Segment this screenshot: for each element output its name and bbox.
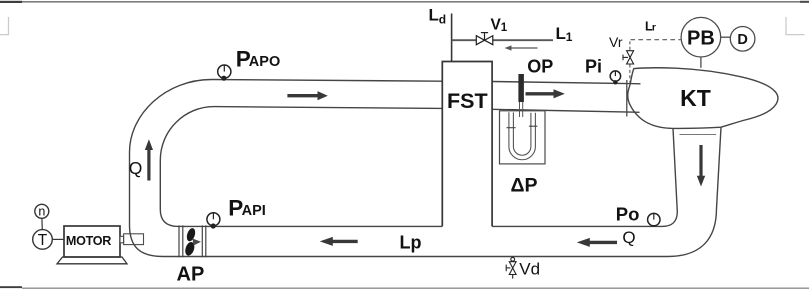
wire: Ld vent stem bbox=[451, 14, 453, 62]
valve V1 bbox=[476, 33, 493, 45]
svg-text:APO: APO bbox=[249, 54, 280, 70]
flow arrow in measuring pipe bbox=[526, 89, 565, 98]
svg-text:KT: KT bbox=[680, 85, 711, 111]
svg-text:ΔP: ΔP bbox=[511, 175, 538, 197]
wire: measuring pipe top edge bbox=[492, 82, 640, 84]
dashed line Lr to blower PB bbox=[631, 39, 681, 41]
svg-text:n: n bbox=[38, 205, 45, 219]
svg-text:d: d bbox=[439, 13, 446, 27]
FST settling chamber box bbox=[442, 62, 492, 227]
bold left arrow bottom middle bbox=[320, 237, 358, 246]
manometer dP box bbox=[500, 111, 546, 164]
svg-text:OP: OP bbox=[527, 57, 553, 77]
link PB to D bbox=[721, 36, 731, 38]
manometer U-tube inner bbox=[513, 112, 531, 155]
dashed line above Vr valve bbox=[629, 41, 631, 50]
torque meter T bbox=[33, 230, 53, 250]
svg-text:FST: FST bbox=[447, 89, 488, 113]
motor box bbox=[64, 226, 120, 257]
thin left arrow under V1 line bbox=[505, 45, 538, 50]
flow arrow top duct bbox=[287, 91, 327, 100]
svg-text:AP: AP bbox=[177, 264, 205, 286]
auxiliary blower PB bbox=[681, 17, 721, 57]
label P APO bbox=[236, 46, 280, 71]
svg-text:Pi: Pi bbox=[585, 57, 602, 77]
gauge P APO bbox=[218, 65, 231, 81]
valve Vd drain bbox=[506, 257, 516, 278]
wire: inner loop duct outline (top duct bottom edge, left inner bend, bottom pipe top edge left part) bbox=[160, 107, 442, 227]
bold left arrow bottom right bbox=[577, 238, 617, 247]
svg-text:PB: PB bbox=[687, 27, 715, 49]
fan AP flange lines bbox=[179, 225, 206, 257]
manometer liquid level ticks bbox=[507, 127, 516, 129]
svg-text:L: L bbox=[556, 24, 566, 43]
wire: bottom pipe top edge right part and right riser inner edge bbox=[492, 129, 677, 227]
gauge Pi bbox=[610, 71, 620, 85]
left frame corner mark bbox=[0, 17, 9, 35]
duct connection line under KT bbox=[680, 134, 717, 136]
link T to motor bbox=[52, 238, 64, 240]
motor shaft housing bbox=[124, 234, 144, 245]
test chamber KT blob bbox=[628, 68, 778, 129]
motor base pedestal bbox=[57, 257, 127, 264]
svg-text:Lp: Lp bbox=[400, 232, 422, 252]
tachometer n bbox=[35, 204, 49, 218]
manometer U-tube outer bbox=[509, 112, 536, 159]
svg-text:1: 1 bbox=[501, 22, 508, 34]
svg-text:MOTOR: MOTOR bbox=[66, 234, 111, 248]
svg-text:D: D bbox=[737, 32, 747, 48]
gauge Po bbox=[648, 213, 660, 225]
down arrow in outlet duct bbox=[697, 145, 705, 187]
label P API bbox=[228, 196, 265, 221]
pitot tube OP bbox=[518, 74, 524, 117]
svg-text:T: T bbox=[38, 232, 48, 249]
valve Vr bbox=[623, 51, 634, 64]
drive D bbox=[730, 27, 755, 52]
top border line bbox=[0, 1, 809, 3]
svg-text:API: API bbox=[242, 203, 266, 219]
stem PB to chamber KT bbox=[700, 57, 702, 68]
svg-text:Vd: Vd bbox=[519, 260, 540, 279]
wire: V1 branch line bbox=[452, 39, 553, 41]
flange at measuring pipe outlet bbox=[626, 80, 628, 117]
up arrow in left riser bbox=[145, 139, 153, 180]
right frame corner mark bbox=[786, 17, 805, 35]
wire: measuring pipe bottom edge bbox=[492, 109, 639, 112]
svg-text:Po: Po bbox=[616, 204, 640, 225]
dashed line below Vr valve to pipe tap bbox=[629, 65, 631, 83]
motor shaft coupling stub bbox=[120, 236, 124, 243]
bottom border line bbox=[0, 286, 809, 289]
wire: outer loop duct outline (top duct top edge, left bend, bottom pipe bottom edge, right riser outer) bbox=[130, 80, 722, 257]
svg-text:r: r bbox=[652, 22, 656, 34]
svg-text:L: L bbox=[429, 6, 439, 25]
svg-text:Q: Q bbox=[622, 228, 635, 247]
svg-text:Vr: Vr bbox=[609, 34, 623, 50]
link n to T bbox=[41, 218, 43, 229]
svg-text:Q: Q bbox=[129, 158, 143, 178]
fan AP propeller bbox=[184, 227, 201, 257]
svg-text:1: 1 bbox=[566, 30, 573, 44]
gauge P API bbox=[207, 213, 220, 229]
